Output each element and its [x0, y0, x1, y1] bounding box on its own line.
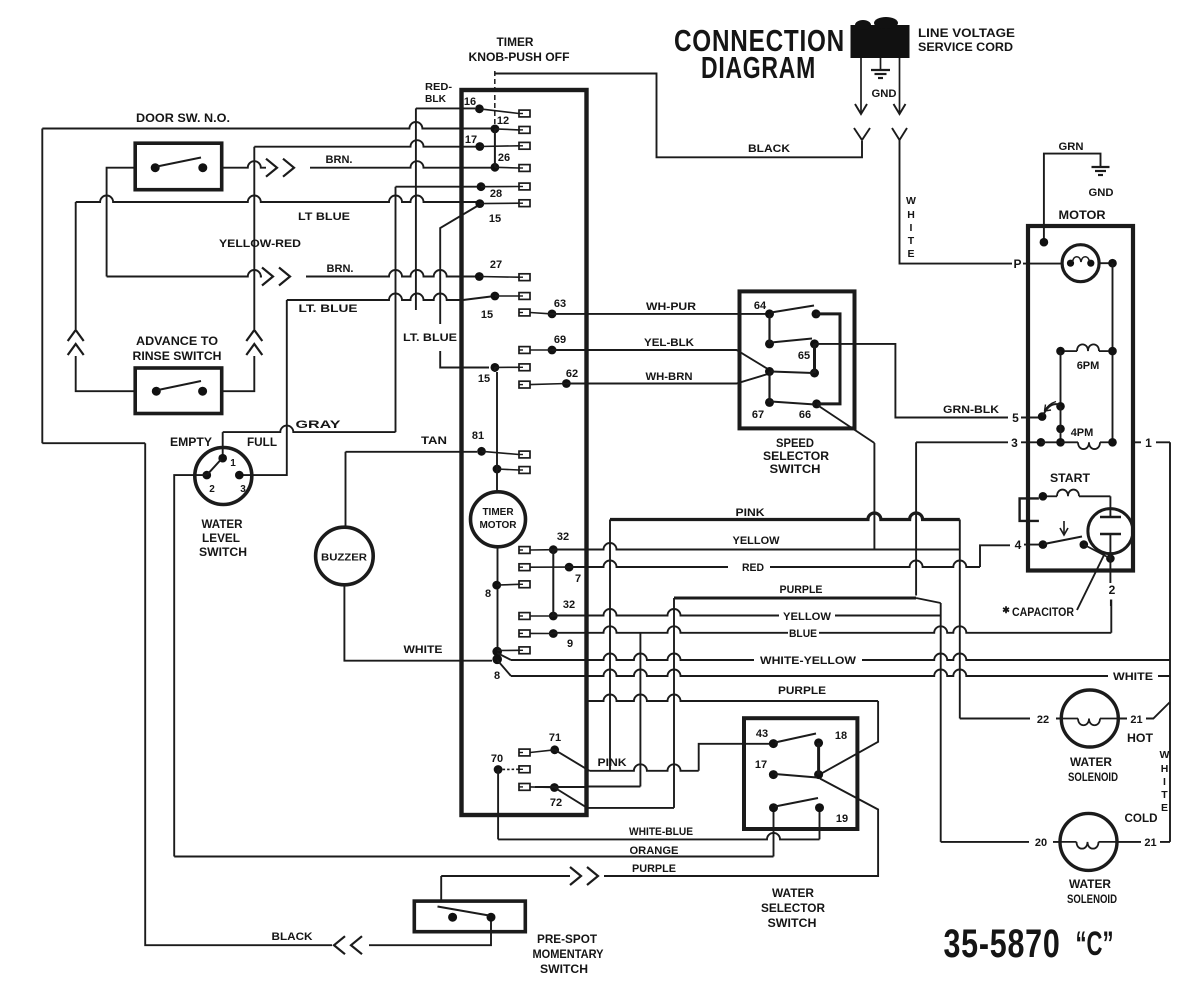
cord right lead with arrow: [894, 58, 906, 114]
svg-text:WATER: WATER: [1070, 757, 1113, 769]
svg-text:WATER: WATER: [1069, 879, 1112, 891]
svg-text:CAPACITOR: CAPACITOR: [1012, 607, 1075, 619]
svg-text:FULL: FULL: [247, 437, 277, 449]
wire WHITE-YELLOW: [497, 653, 1170, 667]
svg-text:BLACK: BLACK: [272, 931, 313, 943]
svg-text:SELECTOR: SELECTOR: [763, 451, 830, 463]
svg-text:T: T: [1161, 789, 1168, 801]
svg-text:66: 66: [799, 409, 811, 421]
door switch lever: [157, 158, 201, 167]
svg-text:SOLENOID: SOLENOID: [1068, 772, 1118, 784]
wire BLACK timer top to service cord: [495, 74, 862, 158]
speed selector switch box: [740, 291, 855, 428]
svg-text:TIMER: TIMER: [497, 37, 535, 49]
wire timer motor bottom: [497, 547, 499, 659]
svg-text:SERVICE CORD: SERVICE CORD: [918, 42, 1013, 54]
terminal 72: [519, 783, 562, 809]
full label: [247, 437, 277, 449]
water level contact 2: [203, 471, 216, 495]
water selector lever bottom: [775, 798, 818, 807]
terminal 32a: [519, 531, 569, 554]
svg-text:H: H: [907, 209, 915, 221]
svg-text:WHITE: WHITE: [404, 644, 443, 656]
svg-text:BRN.: BRN.: [326, 154, 353, 166]
wire GRAY: [223, 419, 396, 458]
motor START label: [1050, 473, 1090, 485]
wire P row: [1023, 262, 1113, 264]
wire 66 diagonal: [818, 406, 874, 550]
wire GRAY vertical to 4th terminal: [396, 187, 478, 432]
wire YELLOW-RED riser to terminal 17: [219, 140, 477, 391]
motor start winding: [1039, 490, 1111, 501]
svg-text:LEVEL: LEVEL: [202, 533, 240, 545]
svg-text:SWITCH: SWITCH: [199, 547, 247, 559]
svg-text:RINSE SWITCH: RINSE SWITCH: [133, 351, 222, 363]
rinse switch lever: [158, 381, 201, 390]
cold water solenoid: [1060, 813, 1117, 870]
svg-text:6PM: 6PM: [1077, 360, 1100, 372]
motor start housing: [1020, 498, 1039, 521]
svg-text:8: 8: [494, 670, 500, 682]
svg-text:BRN.: BRN.: [327, 263, 354, 275]
wire BRN row1 to terminal 26: [222, 154, 491, 177]
wire TAN: [346, 435, 478, 527]
svg-text:“C”: “C”: [1076, 925, 1114, 963]
water level contact 1: [218, 454, 236, 469]
terminal 7: [519, 563, 581, 585]
svg-text:18: 18: [835, 730, 847, 742]
svg-text:72: 72: [550, 797, 562, 809]
wire 72 jog: [535, 786, 587, 788]
svg-text:KNOB-PUSH OFF: KNOB-PUSH OFF: [469, 52, 570, 64]
svg-text:WH-PUR: WH-PUR: [646, 301, 696, 313]
terminal 62: [519, 368, 578, 388]
pre-spot momentary switch box: [414, 901, 525, 932]
water selector link 18: [817, 743, 820, 775]
motor label: [1059, 210, 1107, 222]
svg-text:65: 65: [798, 350, 810, 362]
svg-text:63: 63: [554, 298, 566, 310]
cord right mating chevron: [892, 128, 907, 140]
wire timer motor top: [495, 367, 497, 491]
svg-text:E: E: [1161, 802, 1168, 814]
wire 3 from motor: [916, 442, 1041, 595]
wire RED-BLK vertical: [416, 81, 453, 310]
svg-text:SWITCH: SWITCH: [540, 964, 588, 976]
terminal 16: [464, 96, 530, 117]
speed selector contact r2R: [810, 339, 819, 348]
wire pink vertical V1: [609, 520, 611, 771]
wire PURPLE mid: [588, 685, 878, 775]
motor ground symbol: [1089, 167, 1114, 199]
hot water solenoid: [1061, 690, 1118, 747]
wire terminal16 row: [416, 107, 475, 109]
motor grn entry dot: [1040, 238, 1049, 247]
empty label: [170, 437, 212, 449]
door switch box: [135, 143, 222, 190]
water selector lever mid: [775, 774, 817, 778]
svg-text:8: 8: [485, 588, 491, 600]
motor 3 contact: [1037, 438, 1046, 447]
water selector contact 19: [815, 803, 848, 825]
terminal 81: [472, 430, 530, 458]
svg-text:26: 26: [498, 152, 510, 164]
wire PINK lower: [555, 744, 774, 771]
speed selector left column: [768, 314, 770, 403]
wire 72 diagonal purple: [554, 788, 674, 808]
svg-text:YELLOW-RED: YELLOW-RED: [219, 238, 301, 250]
wire WH-PUR: [552, 301, 770, 314]
svg-text:YELLOW: YELLOW: [783, 611, 832, 623]
wire WHITE buzzer to terminal 8: [344, 585, 492, 661]
terminal 15c: [478, 363, 530, 385]
white vertical label right: [1160, 749, 1170, 814]
pre-spot contact left: [448, 913, 457, 922]
speed selector contact 64: [754, 300, 774, 318]
line voltage service cord block: [851, 17, 1016, 58]
terminal 69: [519, 334, 566, 354]
svg-text:15: 15: [481, 309, 493, 321]
water selector contact 17: [755, 759, 778, 779]
cold solenoid label: [1067, 879, 1117, 906]
svg-text:PINK: PINK: [598, 757, 627, 769]
speed selector contact 66: [799, 399, 821, 421]
speed selector contact 64R: [812, 309, 821, 318]
speed selector label: [763, 438, 830, 476]
advance to rinse switch label: [133, 336, 222, 363]
wire YEL-BLK: [552, 337, 770, 370]
svg-text:WHITE-BLUE: WHITE-BLUE: [629, 826, 693, 838]
svg-text:COLD: COLD: [1125, 813, 1158, 825]
speed selector 65 link: [813, 344, 816, 373]
svg-text:2: 2: [1109, 583, 1116, 597]
timer box: [462, 90, 587, 815]
wire link 12 to 26: [494, 129, 496, 167]
terminal 8 bottom: [492, 647, 530, 682]
svg-text:W: W: [906, 195, 916, 207]
svg-text:21: 21: [1130, 714, 1142, 726]
svg-text:SPEED: SPEED: [776, 438, 814, 450]
motor protector circle: [1062, 245, 1099, 282]
wire pink to hot solenoid V5: [959, 520, 961, 719]
wire PURPLE bottom: [441, 779, 878, 886]
svg-text:WHITE: WHITE: [1113, 671, 1153, 683]
svg-text:15: 15: [478, 373, 490, 385]
water selector contact midright: [814, 770, 823, 779]
svg-text:PURPLE: PURPLE: [632, 863, 676, 875]
svg-text:32: 32: [563, 599, 575, 611]
wire GRN: [1044, 141, 1101, 242]
svg-text:E: E: [907, 248, 914, 260]
terminal unnumbered upper: [477, 182, 530, 191]
svg-text:1: 1: [230, 458, 236, 469]
svg-text:1: 1: [1145, 436, 1152, 450]
door switch contact right: [198, 163, 207, 172]
svg-text:T: T: [908, 235, 915, 247]
timer label: [469, 37, 570, 64]
wire GRN-BLK: [815, 344, 1043, 418]
wire PINK upper: [610, 507, 960, 520]
rinse switch contact left: [152, 387, 161, 396]
wire BLACK bottom: [145, 443, 491, 954]
svg-text:3: 3: [240, 484, 246, 495]
terminal 32b: [519, 599, 575, 620]
svg-text:I: I: [910, 222, 913, 234]
drawing number 35-5870 C: [944, 922, 1114, 966]
svg-text:15: 15: [489, 213, 501, 225]
motor 4PM winding: [1041, 427, 1117, 449]
svg-text:PRE-SPOT: PRE-SPOT: [537, 934, 597, 946]
speed selector contact 67: [752, 398, 774, 421]
svg-text:28: 28: [490, 188, 502, 200]
svg-text:ADVANCE TO: ADVANCE TO: [136, 336, 218, 348]
svg-text:LT. BLUE: LT. BLUE: [299, 303, 358, 315]
wire RED: [569, 545, 1041, 574]
svg-text:RED-: RED-: [425, 81, 453, 93]
svg-text:SWITCH: SWITCH: [770, 464, 821, 476]
svg-text:81: 81: [472, 430, 484, 442]
svg-text:20: 20: [1035, 837, 1047, 849]
label P: [1013, 257, 1021, 271]
door switch label: [136, 113, 230, 125]
hot solenoid label: [1068, 757, 1118, 784]
wire 1 from motor: [1133, 436, 1170, 842]
terminal 15a label: [489, 213, 501, 225]
water level lever: [207, 460, 221, 476]
svg-text:71: 71: [549, 732, 561, 744]
motor 6PM left leg: [1056, 351, 1065, 411]
wire YELLOW 2: [553, 609, 940, 623]
svg-text:4: 4: [1015, 538, 1022, 552]
svg-text:EMPTY: EMPTY: [170, 437, 212, 449]
label 4: [1015, 538, 1022, 552]
wire 21 cold: [1117, 837, 1170, 849]
motor right column: [1112, 263, 1114, 442]
motor 5 contact: [1038, 412, 1047, 421]
svg-text:MOMENTARY: MOMENTARY: [533, 949, 604, 961]
label 3: [1011, 436, 1018, 450]
svg-text:19: 19: [836, 813, 848, 825]
speed selector lever 2: [771, 339, 812, 343]
svg-text:12: 12: [497, 115, 509, 127]
timer knob dashed line: [494, 71, 496, 127]
svg-text:2: 2: [209, 484, 215, 495]
terminal 63: [519, 298, 566, 318]
speed selector lever top: [771, 306, 814, 313]
svg-text:GRN-BLK: GRN-BLK: [943, 404, 999, 416]
svg-text:HOT: HOT: [1127, 733, 1153, 745]
speed selector contact r3R: [798, 350, 819, 378]
terminal 12: [491, 115, 531, 133]
label 5: [1012, 411, 1019, 425]
water selector label: [761, 888, 826, 930]
wire 2 to capacitor: [1109, 562, 1116, 606]
water selector lever top: [775, 734, 816, 743]
svg-text:MOTOR: MOTOR: [479, 520, 517, 531]
svg-text:BLK: BLK: [425, 93, 446, 105]
svg-text:✱: ✱: [1002, 605, 1010, 615]
svg-text:ORANGE: ORANGE: [630, 845, 679, 857]
svg-text:GND: GND: [872, 88, 897, 100]
wire LT BLUE terminal 28 to 15: [403, 205, 489, 368]
svg-text:P: P: [1013, 257, 1021, 271]
capacitor callout: [1002, 553, 1105, 619]
terminal 71: [519, 732, 561, 756]
motor right column dot: [1108, 259, 1117, 268]
cord left mating chevron: [854, 128, 870, 140]
svg-text:62: 62: [566, 368, 578, 380]
svg-text:YEL-BLK: YEL-BLK: [644, 337, 694, 349]
label HOT: [1127, 733, 1153, 745]
svg-text:BUZZER: BUZZER: [321, 553, 368, 564]
terminal 17: [465, 134, 530, 151]
motor speed blade: [1043, 402, 1065, 443]
svg-text:70: 70: [491, 753, 503, 765]
speed selector contact r3L: [765, 367, 774, 376]
svg-text:16: 16: [464, 96, 476, 108]
svg-text:PINK: PINK: [736, 507, 765, 519]
svg-text:DIAGRAM: DIAGRAM: [701, 50, 816, 85]
motor box: [1028, 226, 1133, 571]
water level switch label: [199, 519, 247, 559]
advance to rinse switch box: [135, 368, 222, 414]
svg-text:17: 17: [755, 759, 767, 771]
svg-text:LT BLUE: LT BLUE: [298, 211, 350, 223]
svg-text:SOLENOID: SOLENOID: [1067, 894, 1117, 906]
svg-text:64: 64: [754, 300, 767, 312]
wire WHITE-BLUE: [498, 770, 819, 840]
wire rinse switch left riser: [68, 202, 136, 391]
wire PURPLE main: [674, 584, 941, 842]
wire 20: [941, 837, 1060, 849]
svg-text:32: 32: [557, 531, 569, 543]
wire door switch left leg: [107, 168, 136, 277]
wire 22: [960, 714, 1062, 726]
speed selector lever 3: [771, 372, 813, 374]
pre-spot label: [533, 934, 604, 976]
wire ORANGE: [174, 475, 773, 857]
wire LT BLUE row to terminal 28: [76, 196, 477, 224]
svg-text:START: START: [1050, 473, 1090, 485]
speed selector contact r2L: [765, 339, 774, 348]
terminal 15b: [481, 292, 530, 321]
water selector contact 43: [756, 728, 778, 748]
wire outer left loop to terminal 12: [42, 122, 491, 443]
svg-text:DOOR SW. N.O.: DOOR SW. N.O.: [136, 113, 230, 125]
wire BLUE: [553, 600, 1111, 641]
terminal 8 mid: [485, 581, 530, 600]
svg-text:PURPLE: PURPLE: [780, 584, 823, 596]
svg-text:SWITCH: SWITCH: [768, 918, 817, 930]
wire LT BLUE full to terminal 15: [239, 294, 495, 476]
wire WHITE right: [497, 660, 1170, 683]
svg-text:5: 5: [1012, 411, 1019, 425]
svg-text:WATER: WATER: [772, 888, 815, 900]
speed selector lever bottom: [771, 402, 815, 405]
svg-text:YELLOW: YELLOW: [733, 535, 781, 547]
wire link 32a to 32b: [552, 550, 554, 616]
svg-text:3: 3: [1011, 436, 1018, 450]
cord left lead with arrow: [855, 58, 867, 114]
svg-text:WH-BRN: WH-BRN: [646, 371, 693, 383]
door switch contact left: [151, 163, 160, 172]
wire black left connector row: [42, 442, 145, 444]
svg-text:TIMER: TIMER: [482, 507, 514, 518]
svg-text:SELECTOR: SELECTOR: [761, 903, 826, 915]
motor 6PM winding: [1056, 344, 1117, 372]
svg-text:BLUE: BLUE: [789, 628, 817, 640]
svg-text:GRAY: GRAY: [296, 419, 342, 431]
wire WH-BRN: [566, 371, 769, 384]
svg-text:I: I: [1163, 776, 1166, 788]
water level switch circle: [195, 448, 252, 505]
svg-text:RED: RED: [742, 562, 764, 574]
wire blue stub vertical: [588, 634, 640, 787]
svg-text:BLACK: BLACK: [748, 143, 790, 155]
svg-text:4PM: 4PM: [1071, 427, 1094, 439]
wire pre-spot riser to purple: [440, 876, 442, 901]
rinse switch contact right: [198, 387, 207, 396]
title CONNECTION DIAGRAM: [674, 23, 845, 85]
svg-text:22: 22: [1037, 714, 1049, 726]
terminal 26: [491, 152, 531, 172]
svg-text:H: H: [1161, 763, 1169, 775]
water selector contact 18: [814, 730, 847, 747]
water level contact 3: [235, 471, 246, 495]
svg-text:WATER: WATER: [202, 519, 244, 531]
water selector switch box: [744, 718, 857, 829]
motor start lever: [1044, 521, 1110, 559]
water selector contact bl: [769, 803, 778, 812]
svg-text:17: 17: [465, 134, 477, 146]
pre-spot contact right: [487, 913, 496, 922]
svg-text:67: 67: [752, 409, 764, 421]
buzzer: [316, 527, 374, 585]
motor capacitor circle: [1088, 496, 1133, 563]
wire 21 hot: [1118, 702, 1170, 726]
terminal 28: [475, 188, 530, 208]
svg-text:7: 7: [575, 573, 581, 585]
svg-text:GRN: GRN: [1059, 141, 1084, 153]
terminal 9: [519, 629, 573, 650]
wire BRN row2 to terminal 27: [107, 263, 476, 286]
svg-text:LT. BLUE: LT. BLUE: [403, 332, 457, 344]
svg-text:69: 69: [554, 334, 566, 346]
wire WHITE cord to motor P: [900, 140, 1013, 264]
speed selector right link: [816, 314, 840, 404]
svg-text:27: 27: [490, 259, 502, 271]
motor protector contacts: [1067, 257, 1095, 267]
svg-text:43: 43: [756, 728, 768, 740]
svg-text:GND: GND: [1089, 187, 1114, 199]
svg-text:W: W: [1160, 749, 1170, 761]
pre-spot lever: [438, 907, 490, 916]
svg-text:PURPLE: PURPLE: [778, 685, 826, 697]
ground symbol under cord: [871, 58, 897, 100]
timer motor: [471, 492, 526, 547]
svg-text:MOTOR: MOTOR: [1059, 210, 1107, 222]
wire YELLOW: [553, 535, 960, 550]
terminal unnumbered mid: [493, 465, 530, 474]
svg-text:9: 9: [567, 638, 573, 650]
svg-text:21: 21: [1144, 837, 1156, 849]
svg-text:WHITE-YELLOW: WHITE-YELLOW: [760, 655, 857, 667]
label COLD: [1125, 813, 1158, 825]
motor 4 contact: [1039, 540, 1048, 549]
svg-text:TAN: TAN: [421, 435, 447, 447]
terminal 27: [475, 259, 530, 281]
svg-text:LINE VOLTAGE: LINE VOLTAGE: [918, 28, 1015, 40]
